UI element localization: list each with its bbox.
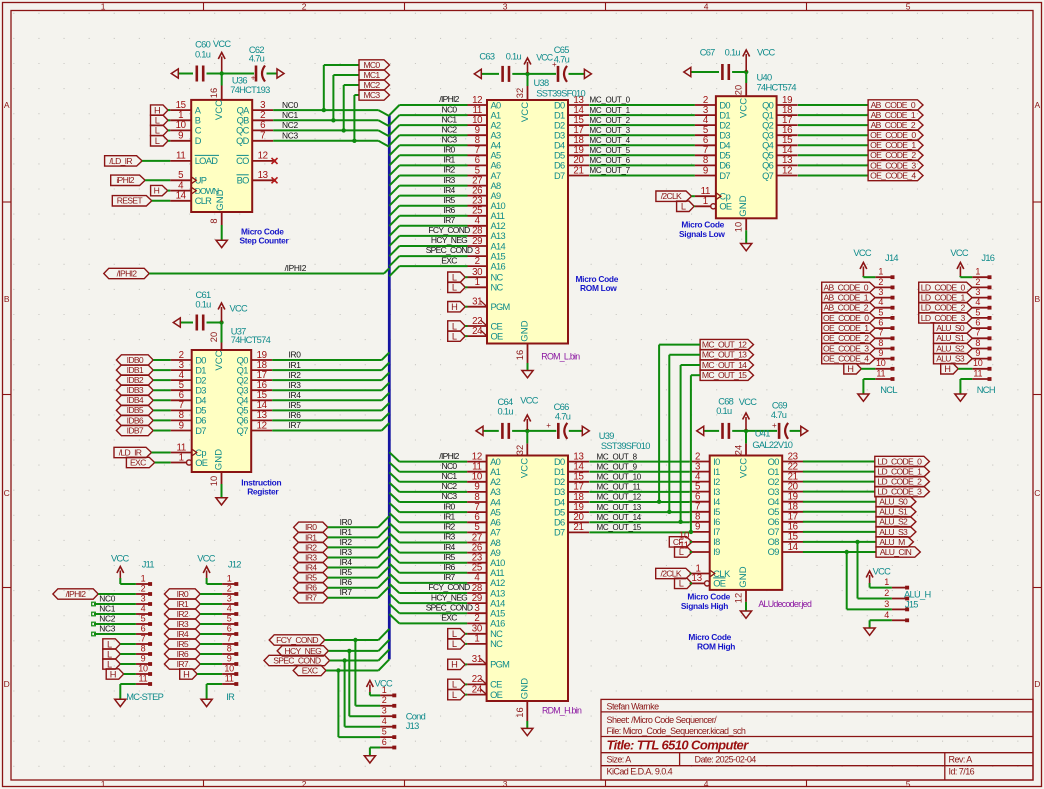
svg-text:AB_CODE_0: AB_CODE_0	[871, 100, 916, 110]
svg-text:OE_CODE_3: OE_CODE_3	[870, 160, 916, 170]
svg-text:IR4: IR4	[443, 185, 455, 195]
svg-text:Q4: Q4	[237, 396, 249, 406]
svg-text:OE: OE	[491, 331, 504, 341]
svg-text:A5: A5	[491, 151, 502, 161]
svg-text:NC2: NC2	[282, 120, 298, 130]
svg-text:LD_CODE_2: LD_CODE_2	[921, 303, 966, 313]
svg-text:PGM: PGM	[490, 660, 509, 670]
svg-text:OE: OE	[195, 458, 208, 468]
svg-text:11: 11	[225, 673, 234, 683]
svg-text:4: 4	[884, 610, 889, 620]
svg-text:HCY_NEG: HCY_NEG	[431, 235, 467, 245]
svg-text:A8: A8	[491, 181, 502, 191]
svg-text:MC_OUT_12: MC_OUT_12	[597, 493, 642, 502]
svg-text:/LD_IR: /LD_IR	[109, 156, 132, 166]
svg-text:D6: D6	[719, 161, 730, 171]
svg-text:IR5: IR5	[443, 552, 455, 562]
svg-text:VCC: VCC	[214, 350, 225, 370]
svg-text:J11: J11	[142, 560, 155, 570]
svg-text:D1: D1	[719, 110, 730, 120]
svg-text:IR1: IR1	[443, 512, 455, 522]
svg-text:L: L	[452, 680, 457, 690]
svg-text:GND: GND	[519, 320, 530, 341]
svg-text:MC_OUT_0: MC_OUT_0	[590, 96, 631, 105]
svg-text:OE_CODE_4: OE_CODE_4	[870, 170, 916, 180]
svg-text:iPHI2: iPHI2	[116, 175, 134, 185]
svg-text:/IPHI2: /IPHI2	[439, 451, 459, 461]
svg-text:U36: U36	[232, 75, 247, 85]
svg-text:C: C	[195, 126, 202, 136]
svg-text:IR3: IR3	[340, 547, 353, 557]
svg-text:IR0: IR0	[340, 517, 353, 527]
svg-text:EXC: EXC	[441, 613, 457, 623]
svg-text:1: 1	[141, 573, 146, 583]
svg-text:FCY_COND: FCY_COND	[428, 582, 470, 592]
svg-text:5: 5	[227, 613, 232, 623]
svg-text:GND: GND	[738, 566, 749, 587]
svg-text:QB: QB	[237, 116, 250, 126]
svg-text:MC0: MC0	[363, 60, 380, 70]
svg-text:IR2: IR2	[305, 542, 317, 552]
svg-text:Q6: Q6	[762, 161, 774, 171]
svg-text:/IPHI2: /IPHI2	[285, 263, 307, 273]
svg-text:I6: I6	[713, 517, 720, 527]
svg-text:2: 2	[878, 277, 883, 287]
svg-text:14: 14	[788, 542, 799, 553]
svg-text:/IPHI2: /IPHI2	[66, 589, 87, 599]
svg-text:10: 10	[224, 663, 234, 673]
svg-text:I1: I1	[713, 467, 720, 477]
svg-text:ALU_M: ALU_M	[879, 537, 905, 547]
svg-text:O4: O4	[768, 497, 780, 507]
svg-text:Rev: A: Rev: A	[949, 754, 973, 764]
svg-text:7: 7	[878, 328, 883, 338]
svg-text:D6: D6	[554, 518, 565, 528]
svg-text:8: 8	[975, 338, 980, 348]
svg-text:1: 1	[474, 634, 479, 645]
svg-text:Q0: Q0	[237, 355, 249, 365]
svg-text:D0: D0	[554, 100, 565, 110]
svg-text:OE_CODE_0: OE_CODE_0	[870, 130, 916, 140]
svg-text:D: D	[195, 136, 202, 146]
svg-text:IR4: IR4	[443, 542, 455, 552]
svg-text:6: 6	[878, 318, 883, 328]
svg-text:10: 10	[176, 120, 187, 131]
svg-text:8: 8	[227, 643, 232, 653]
svg-text:IR6: IR6	[443, 205, 455, 215]
svg-text:Q2: Q2	[237, 375, 249, 385]
svg-text:CLK: CLK	[713, 569, 731, 579]
svg-text:21: 21	[573, 522, 583, 533]
svg-text:1: 1	[101, 779, 106, 789]
svg-text:/IPHI2: /IPHI2	[439, 94, 459, 104]
svg-text:Size: A: Size: A	[607, 754, 632, 764]
svg-text:A1: A1	[491, 110, 502, 120]
svg-text:D5: D5	[554, 151, 565, 161]
svg-text:D2: D2	[554, 477, 565, 487]
svg-text:Register: Register	[247, 487, 279, 497]
svg-text:H: H	[110, 669, 117, 679]
svg-text:GAL22V10: GAL22V10	[752, 440, 792, 450]
svg-text:IR3: IR3	[289, 380, 302, 390]
svg-text:MC_OUT_3: MC_OUT_3	[590, 126, 631, 135]
svg-text:10: 10	[876, 358, 886, 368]
svg-text:OE_CODE_4: OE_CODE_4	[823, 354, 869, 364]
svg-text:13: 13	[258, 170, 268, 181]
svg-text:6: 6	[260, 120, 265, 131]
svg-text:NC2: NC2	[442, 124, 458, 134]
svg-text:MC_OUT_5: MC_OUT_5	[590, 146, 631, 155]
svg-text:5: 5	[141, 613, 146, 623]
svg-text:L: L	[681, 202, 686, 212]
svg-text:Micro Code: Micro Code	[687, 592, 730, 602]
svg-text:D0: D0	[554, 457, 565, 467]
svg-text:20: 20	[734, 85, 744, 96]
svg-text:D1: D1	[554, 467, 565, 477]
svg-text:L: L	[107, 649, 112, 659]
svg-text:J12: J12	[228, 560, 241, 570]
svg-text:5: 5	[975, 307, 980, 317]
svg-text:PGM: PGM	[491, 302, 510, 312]
svg-text:3: 3	[141, 593, 146, 603]
svg-text:IR7: IR7	[443, 572, 455, 582]
svg-text:IR2: IR2	[443, 522, 455, 532]
svg-text:NC: NC	[490, 629, 503, 639]
svg-text:IR6: IR6	[289, 410, 302, 420]
svg-text:NCL: NCL	[880, 385, 897, 395]
svg-text:D0: D0	[719, 100, 730, 110]
svg-text:Signals Low: Signals Low	[679, 229, 725, 239]
svg-text:IR2: IR2	[177, 609, 189, 619]
svg-text:U41: U41	[755, 429, 770, 439]
svg-text:IR1: IR1	[305, 532, 317, 542]
svg-text:74HCT574: 74HCT574	[231, 335, 271, 345]
svg-text:16: 16	[515, 707, 525, 718]
svg-text:IR3: IR3	[443, 175, 455, 185]
svg-text:A: A	[4, 100, 10, 110]
svg-text:A5: A5	[490, 507, 501, 517]
svg-text:LD_CODE_0: LD_CODE_0	[921, 282, 966, 292]
svg-text:2: 2	[884, 588, 889, 598]
svg-text:IR4: IR4	[305, 562, 317, 572]
svg-text:L: L	[452, 273, 457, 283]
svg-text:C67: C67	[700, 48, 715, 58]
svg-text:16: 16	[209, 88, 219, 99]
svg-text:I0: I0	[713, 457, 720, 467]
svg-text:Q1: Q1	[762, 110, 774, 120]
svg-text:0.1u: 0.1u	[498, 407, 514, 417]
svg-text:A14: A14	[490, 598, 505, 608]
svg-text:6: 6	[382, 737, 387, 747]
svg-text:IR0: IR0	[443, 145, 455, 155]
svg-text:EXC: EXC	[130, 457, 146, 467]
svg-text:5: 5	[878, 307, 883, 317]
svg-text:C61: C61	[196, 290, 211, 300]
svg-text:Id: 7/16: Id: 7/16	[949, 767, 975, 777]
svg-text:NC: NC	[491, 283, 504, 293]
svg-text:CE: CE	[490, 680, 502, 690]
svg-text:CLR: CLR	[195, 196, 212, 206]
svg-text:ALU_S3: ALU_S3	[936, 354, 965, 364]
svg-text:16: 16	[515, 350, 525, 361]
svg-text:4: 4	[141, 603, 146, 613]
svg-text:IR7: IR7	[289, 420, 302, 430]
svg-text:2: 2	[474, 613, 479, 624]
svg-text:NC3: NC3	[282, 131, 298, 141]
svg-text:SST39SF010: SST39SF010	[601, 441, 650, 451]
svg-text:A1: A1	[490, 467, 501, 477]
svg-text:MC_OUT_11: MC_OUT_11	[597, 483, 642, 492]
svg-text:VCC: VCC	[111, 554, 130, 564]
svg-text:NC0: NC0	[442, 461, 458, 471]
svg-text:31: 31	[472, 297, 482, 308]
svg-text:O7: O7	[768, 527, 780, 537]
svg-text:IR: IR	[226, 692, 235, 702]
svg-text:0.1u: 0.1u	[725, 48, 741, 58]
svg-text:L: L	[452, 283, 457, 293]
svg-text:D4: D4	[719, 141, 730, 151]
svg-text:4.7u: 4.7u	[249, 54, 265, 64]
svg-text:IR4: IR4	[289, 390, 302, 400]
svg-text:IR2: IR2	[340, 537, 353, 547]
svg-text:IR5: IR5	[340, 567, 353, 577]
svg-text:LD_CODE_1: LD_CODE_1	[921, 293, 966, 303]
svg-text:6: 6	[227, 623, 232, 633]
svg-text:5: 5	[906, 1, 911, 11]
svg-text:A11: A11	[490, 568, 504, 578]
svg-text:H: H	[154, 186, 160, 196]
svg-text:IR0: IR0	[177, 589, 189, 599]
svg-text:Date: 2025-02-04: Date: 2025-02-04	[695, 754, 757, 764]
svg-text:I7: I7	[713, 527, 720, 537]
svg-text:Q3: Q3	[237, 386, 249, 396]
svg-text:A4: A4	[490, 497, 501, 507]
svg-text:NC0: NC0	[99, 594, 115, 604]
svg-text:A12: A12	[491, 221, 506, 231]
svg-text:D4: D4	[554, 141, 565, 151]
svg-text:IDB2: IDB2	[127, 375, 144, 385]
svg-text:CO: CO	[236, 156, 249, 166]
svg-text:0.1u: 0.1u	[716, 406, 732, 416]
svg-text:IR4: IR4	[340, 557, 353, 567]
svg-text:D1: D1	[554, 110, 565, 120]
svg-text:IDB5: IDB5	[127, 405, 144, 415]
svg-text:D4: D4	[554, 497, 565, 507]
svg-text:ALU_S1: ALU_S1	[879, 507, 908, 517]
svg-text:IR3: IR3	[443, 532, 455, 542]
svg-text:OE_CODE_1: OE_CODE_1	[870, 140, 916, 150]
svg-text:VCC: VCC	[214, 100, 225, 120]
svg-text:10: 10	[973, 358, 983, 368]
svg-text:2: 2	[302, 1, 307, 11]
svg-text:I2: I2	[713, 477, 720, 487]
svg-text:IR6: IR6	[443, 562, 455, 572]
svg-text:/IPHI2: /IPHI2	[117, 268, 138, 278]
svg-text:QC: QC	[236, 126, 250, 136]
svg-text:3: 3	[503, 779, 508, 789]
svg-text:A12: A12	[490, 578, 505, 588]
svg-text:4: 4	[227, 603, 232, 613]
svg-text:LD_CODE_3: LD_CODE_3	[921, 313, 966, 323]
svg-text:/2CLK: /2CLK	[661, 191, 682, 201]
svg-text:D7: D7	[195, 426, 206, 436]
svg-text:IR3: IR3	[305, 552, 317, 562]
svg-text:Signals High: Signals High	[681, 601, 728, 611]
svg-text:NC1: NC1	[442, 114, 458, 124]
svg-text:MC_OUT_14: MC_OUT_14	[702, 360, 747, 370]
svg-text:L: L	[155, 136, 160, 146]
svg-text:L: L	[107, 639, 112, 649]
svg-text:A11: A11	[491, 211, 505, 221]
svg-text:Sheet: /Micro Code Sequencer/: Sheet: /Micro Code Sequencer/	[607, 715, 718, 725]
svg-text:1: 1	[878, 267, 883, 277]
svg-text:L: L	[107, 659, 112, 669]
svg-text:AB_CODE_0: AB_CODE_0	[824, 282, 869, 292]
svg-text:L: L	[452, 639, 457, 649]
svg-text:6: 6	[141, 623, 146, 633]
svg-text:20: 20	[209, 332, 219, 343]
svg-text:QD: QD	[236, 136, 250, 146]
svg-text:11: 11	[679, 541, 688, 552]
svg-text:SST39SF010: SST39SF010	[536, 89, 585, 99]
svg-text:IR7: IR7	[443, 215, 455, 225]
svg-text:MC_OUT_6: MC_OUT_6	[590, 156, 631, 165]
svg-text:D2: D2	[195, 375, 206, 385]
svg-text:Stefan Warnke: Stefan Warnke	[607, 702, 660, 712]
svg-text:J13: J13	[406, 721, 419, 731]
svg-text:2: 2	[141, 583, 146, 593]
svg-text:6: 6	[975, 318, 980, 328]
svg-text:B: B	[1034, 294, 1040, 304]
svg-text:IR1: IR1	[340, 527, 353, 537]
svg-text:MC_OUT_14: MC_OUT_14	[597, 513, 642, 522]
svg-text:H: H	[183, 669, 190, 679]
svg-text:12: 12	[258, 151, 268, 162]
svg-text:O9: O9	[768, 547, 780, 557]
svg-text:A2: A2	[491, 120, 502, 130]
svg-text:VCC: VCC	[213, 39, 232, 49]
svg-text:32: 32	[515, 88, 525, 99]
svg-text:0.1u: 0.1u	[506, 51, 522, 61]
svg-text:IDB7: IDB7	[127, 425, 144, 435]
svg-text:A3: A3	[490, 487, 501, 497]
svg-text:SPEC_COND: SPEC_COND	[426, 245, 473, 255]
svg-text:1: 1	[179, 452, 184, 463]
svg-text:IR6: IR6	[177, 649, 189, 659]
svg-text:74HCT574: 74HCT574	[757, 83, 797, 93]
svg-text:9: 9	[703, 165, 708, 176]
svg-text:IDB3: IDB3	[127, 385, 144, 395]
svg-text:D: D	[1034, 679, 1040, 689]
svg-text:13: 13	[692, 573, 702, 584]
svg-text:OE_CODE_2: OE_CODE_2	[870, 150, 916, 160]
svg-text:NC0: NC0	[282, 100, 298, 110]
svg-text:0.1u: 0.1u	[195, 49, 211, 59]
svg-text:/2CLK: /2CLK	[661, 568, 682, 578]
svg-text:MC_OUT_15: MC_OUT_15	[702, 370, 747, 380]
svg-text:D3: D3	[719, 131, 730, 141]
svg-text:NC: NC	[490, 639, 503, 649]
svg-text:LOAD: LOAD	[195, 156, 219, 166]
svg-text:A15: A15	[490, 609, 505, 619]
svg-text:3: 3	[227, 593, 232, 603]
svg-text:EXC: EXC	[441, 255, 457, 265]
svg-text:IR1: IR1	[289, 360, 302, 370]
svg-text:SPEC_COND: SPEC_COND	[273, 655, 321, 665]
svg-text:A7: A7	[491, 171, 502, 181]
svg-text:MC_OUT_1: MC_OUT_1	[590, 106, 631, 115]
svg-text:A7: A7	[490, 528, 501, 538]
svg-text:12: 12	[257, 420, 267, 431]
svg-text:9: 9	[878, 348, 883, 358]
svg-text:74HCT193: 74HCT193	[230, 85, 270, 95]
svg-text:OE_CODE_0: OE_CODE_0	[823, 313, 869, 323]
svg-text:NC3: NC3	[442, 491, 458, 501]
svg-text:7: 7	[227, 633, 232, 643]
svg-text:IR7: IR7	[305, 593, 317, 603]
svg-text:MC_OUT_4: MC_OUT_4	[590, 136, 631, 145]
svg-text:IR2: IR2	[443, 165, 455, 175]
svg-text:D0: D0	[195, 355, 206, 365]
svg-text:4.7u: 4.7u	[554, 55, 570, 65]
svg-text:ALU_S0: ALU_S0	[936, 323, 965, 333]
svg-text:C: C	[1034, 488, 1040, 498]
svg-text:2: 2	[302, 779, 307, 789]
svg-text:OE_CODE_2: OE_CODE_2	[823, 333, 869, 343]
svg-text:9: 9	[178, 131, 183, 142]
svg-text:1: 1	[475, 277, 480, 288]
svg-text:Q7: Q7	[762, 171, 774, 181]
svg-text:+: +	[251, 74, 256, 83]
svg-text:IR5: IR5	[177, 639, 189, 649]
svg-text:L: L	[679, 579, 684, 589]
svg-text:A15: A15	[491, 251, 506, 261]
svg-text:Q4: Q4	[762, 141, 774, 151]
svg-text:D2: D2	[554, 120, 565, 130]
svg-text:O8: O8	[768, 537, 780, 547]
svg-text:GND: GND	[215, 189, 226, 210]
svg-text:NCH: NCH	[977, 385, 995, 395]
svg-text:IR1: IR1	[177, 599, 189, 609]
svg-text:O0: O0	[768, 457, 780, 467]
svg-text:ALU_S2: ALU_S2	[936, 343, 965, 353]
svg-text:A13: A13	[490, 588, 505, 598]
svg-text:H: H	[154, 105, 161, 115]
svg-text:9: 9	[141, 653, 146, 663]
svg-text:A8: A8	[490, 538, 501, 548]
svg-text:IR4: IR4	[177, 629, 189, 639]
svg-text:A14: A14	[491, 241, 506, 251]
svg-text:IR7: IR7	[340, 587, 353, 597]
svg-text:VCC: VCC	[757, 48, 776, 58]
svg-text:4.7u: 4.7u	[555, 412, 571, 422]
svg-text:ALUdecoder.jed: ALUdecoder.jed	[758, 599, 812, 609]
svg-text:FCY_COND: FCY_COND	[428, 225, 470, 235]
svg-text:IR0: IR0	[443, 501, 455, 511]
svg-text:1: 1	[884, 577, 889, 587]
svg-text:B: B	[195, 116, 201, 126]
svg-text:H: H	[451, 302, 458, 312]
svg-text:IR2: IR2	[289, 370, 302, 380]
svg-text:1: 1	[975, 267, 980, 277]
svg-text:11: 11	[973, 368, 982, 378]
svg-text:NC0: NC0	[442, 104, 458, 114]
svg-text:L: L	[452, 629, 457, 639]
svg-text:2: 2	[382, 695, 387, 705]
svg-text:0.1u: 0.1u	[195, 300, 211, 310]
svg-text:U38: U38	[534, 78, 549, 88]
svg-text:4: 4	[878, 297, 883, 307]
